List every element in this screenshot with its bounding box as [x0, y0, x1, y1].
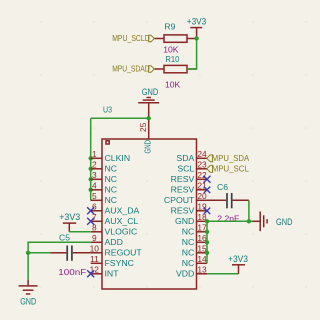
pin 21 RESV [171, 181, 207, 195]
svg-text:5: 5 [92, 191, 97, 201]
svg-text:6: 6 [92, 202, 97, 212]
svg-text:GND: GND [20, 296, 36, 306]
svg-text:AUX_DA: AUX_DA [105, 205, 140, 215]
svg-text:24: 24 [197, 149, 207, 159]
wire pin18 GND rail [207, 220, 253, 222]
svg-text:NC: NC [105, 184, 118, 194]
svg-text:9: 9 [92, 233, 97, 243]
junction pin2 [89, 167, 93, 171]
IC U3 body [102, 104, 197, 289]
svg-text:11: 11 [90, 254, 99, 264]
pin 12 INT [90, 265, 120, 279]
svg-text:8: 8 [92, 223, 97, 233]
svg-text:GND: GND [142, 140, 152, 154]
no-connect X pin 19 [204, 208, 210, 214]
junction pin3 [89, 177, 93, 181]
junction pin4 [89, 188, 93, 192]
pin 17 NC [182, 223, 207, 237]
pin 25 (GND, top) [138, 103, 152, 154]
pin 23 SCL [177, 160, 207, 174]
wire C5 left [28, 252, 50, 254]
resistor R9 [155, 21, 197, 54]
pin 6 AUX_DA [91, 202, 140, 216]
svg-text:FSYNC: FSYNC [105, 258, 134, 268]
pin 22 RESV [171, 170, 207, 184]
svg-text:14: 14 [197, 254, 207, 264]
svg-text:RESV: RESV [171, 184, 195, 194]
pin 18 GND [175, 212, 207, 226]
svg-text:SCL: SCL [177, 163, 194, 173]
svg-text:R10: R10 [165, 54, 179, 64]
svg-text:2.2nF: 2.2nF [217, 214, 239, 224]
svg-text:RESV: RESV [171, 174, 195, 184]
no-connect X pin 7 [87, 218, 94, 225]
svg-text:SDA: SDA [176, 153, 194, 163]
svg-text:MPU_SDA: MPU_SDA [212, 153, 250, 163]
svg-text:+3V3: +3V3 [228, 254, 248, 264]
pin 8 VLOGIC [91, 223, 138, 237]
pin 19 RESV [171, 202, 207, 216]
svg-text:C6: C6 [217, 182, 228, 192]
capacitor C5 [51, 232, 91, 277]
wire +3V3 down to R10 [187, 38, 197, 69]
svg-text:RESV: RESV [171, 205, 195, 215]
svg-text:NC: NC [182, 226, 195, 236]
pin 14 NC [182, 254, 207, 268]
wire NC bus pins 18-14 [206, 221, 208, 263]
svg-text:CLKIN: CLKIN [105, 153, 131, 163]
wire GND to left pin bus [91, 117, 149, 119]
junction at pin25 line [147, 116, 151, 120]
junction R9/+3V3 [194, 36, 198, 40]
pin 2 NC [91, 160, 117, 174]
svg-text:3: 3 [92, 170, 97, 180]
no-connect X pin 21 [204, 187, 210, 193]
svg-text:VLOGIC: VLOGIC [105, 226, 138, 236]
pin 15 NC [182, 244, 207, 258]
wire +3V3 to pin8 [69, 231, 90, 233]
junction pin18 [205, 219, 209, 223]
power symbol GND (top of pin 25) [138, 87, 159, 103]
svg-text:20: 20 [197, 191, 207, 201]
pin 24 SDA [176, 149, 207, 163]
svg-text:NC: NC [182, 237, 195, 247]
pin 11 FSYNC [90, 254, 134, 268]
svg-text:NC: NC [105, 163, 118, 173]
pin 16 NC [182, 233, 207, 247]
svg-text:C5: C5 [59, 232, 70, 242]
junction C6/GND rail [247, 219, 251, 223]
svg-text:NC: NC [105, 174, 118, 184]
pin 7 AUX_CL [91, 212, 139, 226]
pin 5 NC [91, 191, 117, 205]
svg-text:AUX_CL: AUX_CL [105, 216, 139, 226]
power symbol GND (bottom left) [19, 280, 38, 307]
power symbol +3V3 (top) [187, 16, 207, 38]
svg-text:GND: GND [175, 216, 194, 226]
svg-text:NC: NC [105, 195, 118, 205]
capacitor C6 [207, 182, 249, 224]
wire C6 to GND rail [248, 200, 250, 221]
svg-text:GND: GND [276, 217, 293, 227]
pin 3 NC [91, 170, 117, 184]
svg-text:100nF: 100nF [58, 267, 86, 277]
junction pin17 [205, 230, 209, 234]
svg-text:MPU_SDAD: MPU_SDAD [112, 64, 150, 74]
svg-text:25: 25 [138, 122, 148, 132]
pin 13 VDD [176, 265, 207, 279]
no-connect X pin 22 [204, 176, 211, 183]
svg-text:4: 4 [92, 181, 97, 191]
svg-text:ADD: ADD [105, 237, 123, 247]
svg-text:10K: 10K [165, 79, 181, 89]
svg-text:GND: GND [142, 87, 159, 97]
power symbol +3V3 (right) [228, 254, 248, 274]
resistor R10 [155, 54, 197, 89]
hier label MPU_SCLD [112, 33, 154, 43]
wire pin9 ADD to gnd rail [28, 242, 91, 279]
wire left vertical bus pins 1-5 [90, 118, 92, 200]
hier label MPU_SDAD [112, 64, 154, 74]
power symbol +3V3 (left, pin8 VLOGIC) [59, 212, 80, 232]
svg-text:13: 13 [197, 265, 207, 275]
no-connect X pin 6 [87, 207, 94, 214]
svg-text:NC: NC [182, 258, 195, 268]
svg-text:+3V3: +3V3 [59, 212, 80, 222]
svg-text:REGOUT: REGOUT [105, 247, 143, 257]
svg-text:MPU_SCL: MPU_SCL [212, 164, 249, 174]
hier label MPU_SDA [207, 153, 250, 163]
svg-text:NC: NC [182, 247, 195, 257]
hier label MPU_SCL [207, 164, 249, 174]
svg-text:INT: INT [105, 268, 120, 278]
svg-text:23: 23 [197, 160, 207, 170]
pin 20 CPOUT [164, 191, 207, 205]
power symbol GND (right, rotated) [253, 211, 293, 231]
svg-text:+3V3: +3V3 [187, 16, 207, 26]
pin 10 REGOUT [90, 244, 143, 258]
pin 9 ADD [91, 233, 123, 247]
svg-text:1: 1 [92, 149, 97, 159]
svg-text:U3: U3 [103, 104, 112, 114]
junction C5 left [26, 251, 30, 255]
svg-text:10: 10 [90, 244, 100, 254]
svg-text:2: 2 [92, 160, 97, 170]
junction pin16 [205, 240, 209, 244]
svg-text:MPU_SCLD: MPU_SCLD [112, 33, 150, 43]
pin 1 CLKIN [91, 149, 130, 163]
svg-text:10K: 10K [163, 45, 179, 55]
svg-text:7: 7 [92, 212, 97, 222]
svg-text:VDD: VDD [176, 268, 194, 278]
svg-text:CPOUT: CPOUT [164, 195, 195, 205]
no-connect X pin 12 [87, 270, 94, 277]
junction pin1 [89, 156, 93, 160]
junction pin15 [205, 251, 209, 255]
svg-text:R9: R9 [164, 21, 175, 31]
pin 4 NC [91, 181, 117, 195]
wire VDD to +3V3 [207, 273, 239, 275]
